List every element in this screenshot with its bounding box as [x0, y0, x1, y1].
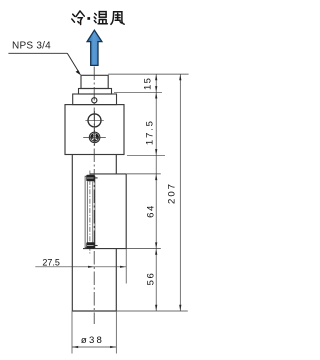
- body right side wall lower: [115, 249, 117, 311]
- dial window circle: [85, 111, 103, 130]
- 冷: [72, 11, 85, 25]
- main body outline: [72, 155, 126, 312]
- ・: [87, 17, 90, 20]
- slot top screw: [86, 175, 97, 181]
- fitting hex step: [79, 89, 112, 95]
- head block: [65, 105, 124, 155]
- 風: [111, 12, 124, 25]
- svg-text:17.5: 17.5: [144, 119, 155, 145]
- NPS 3/4 label: [8, 41, 67, 54]
- extension lines (right side): [108, 74, 188, 311]
- svg-text:207: 207: [167, 182, 178, 204]
- leader line to fitting: [67, 53, 81, 75]
- slot bottom screw: [86, 242, 97, 249]
- svg-text:64: 64: [146, 204, 157, 218]
- top flange: [73, 94, 117, 105]
- svg-text:15: 15: [142, 77, 153, 90]
- side block right wall: [125, 174, 127, 249]
- side block bottom edge: [83, 248, 126, 250]
- svg-text:NPS 3/4: NPS 3/4: [12, 41, 51, 52]
- side block top edge: [90, 173, 126, 175]
- body bottom edge: [72, 310, 116, 312]
- title text 冷・温風 (drawn kanji): [72, 11, 124, 25]
- inner dimension line: [155, 74, 157, 311]
- main vertical center line: [93, 67, 95, 325]
- svg-text:27.5: 27.5: [42, 257, 60, 267]
- body left side wall: [71, 155, 73, 312]
- phi38 dimension: [72, 335, 116, 348]
- adjustment knob (dark): [83, 130, 106, 145]
- svg-text:ø38: ø38: [81, 335, 104, 346]
- phi38 extension lines: [72, 311, 116, 354]
- cold/hot air flow arrow (blue): [87, 30, 102, 65]
- outlet pipe fitting: [81, 75, 108, 88]
- dimension arrowheads: [155, 74, 181, 311]
- body right side wall upper: [115, 155, 117, 175]
- outer dimension line 207: [179, 74, 181, 311]
- flange screw hole: [92, 98, 97, 103]
- svg-text:56: 56: [146, 272, 157, 286]
- 温: [94, 12, 107, 24]
- sight-glass slot: [85, 171, 95, 254]
- dimension 27.5: [35, 257, 126, 268]
